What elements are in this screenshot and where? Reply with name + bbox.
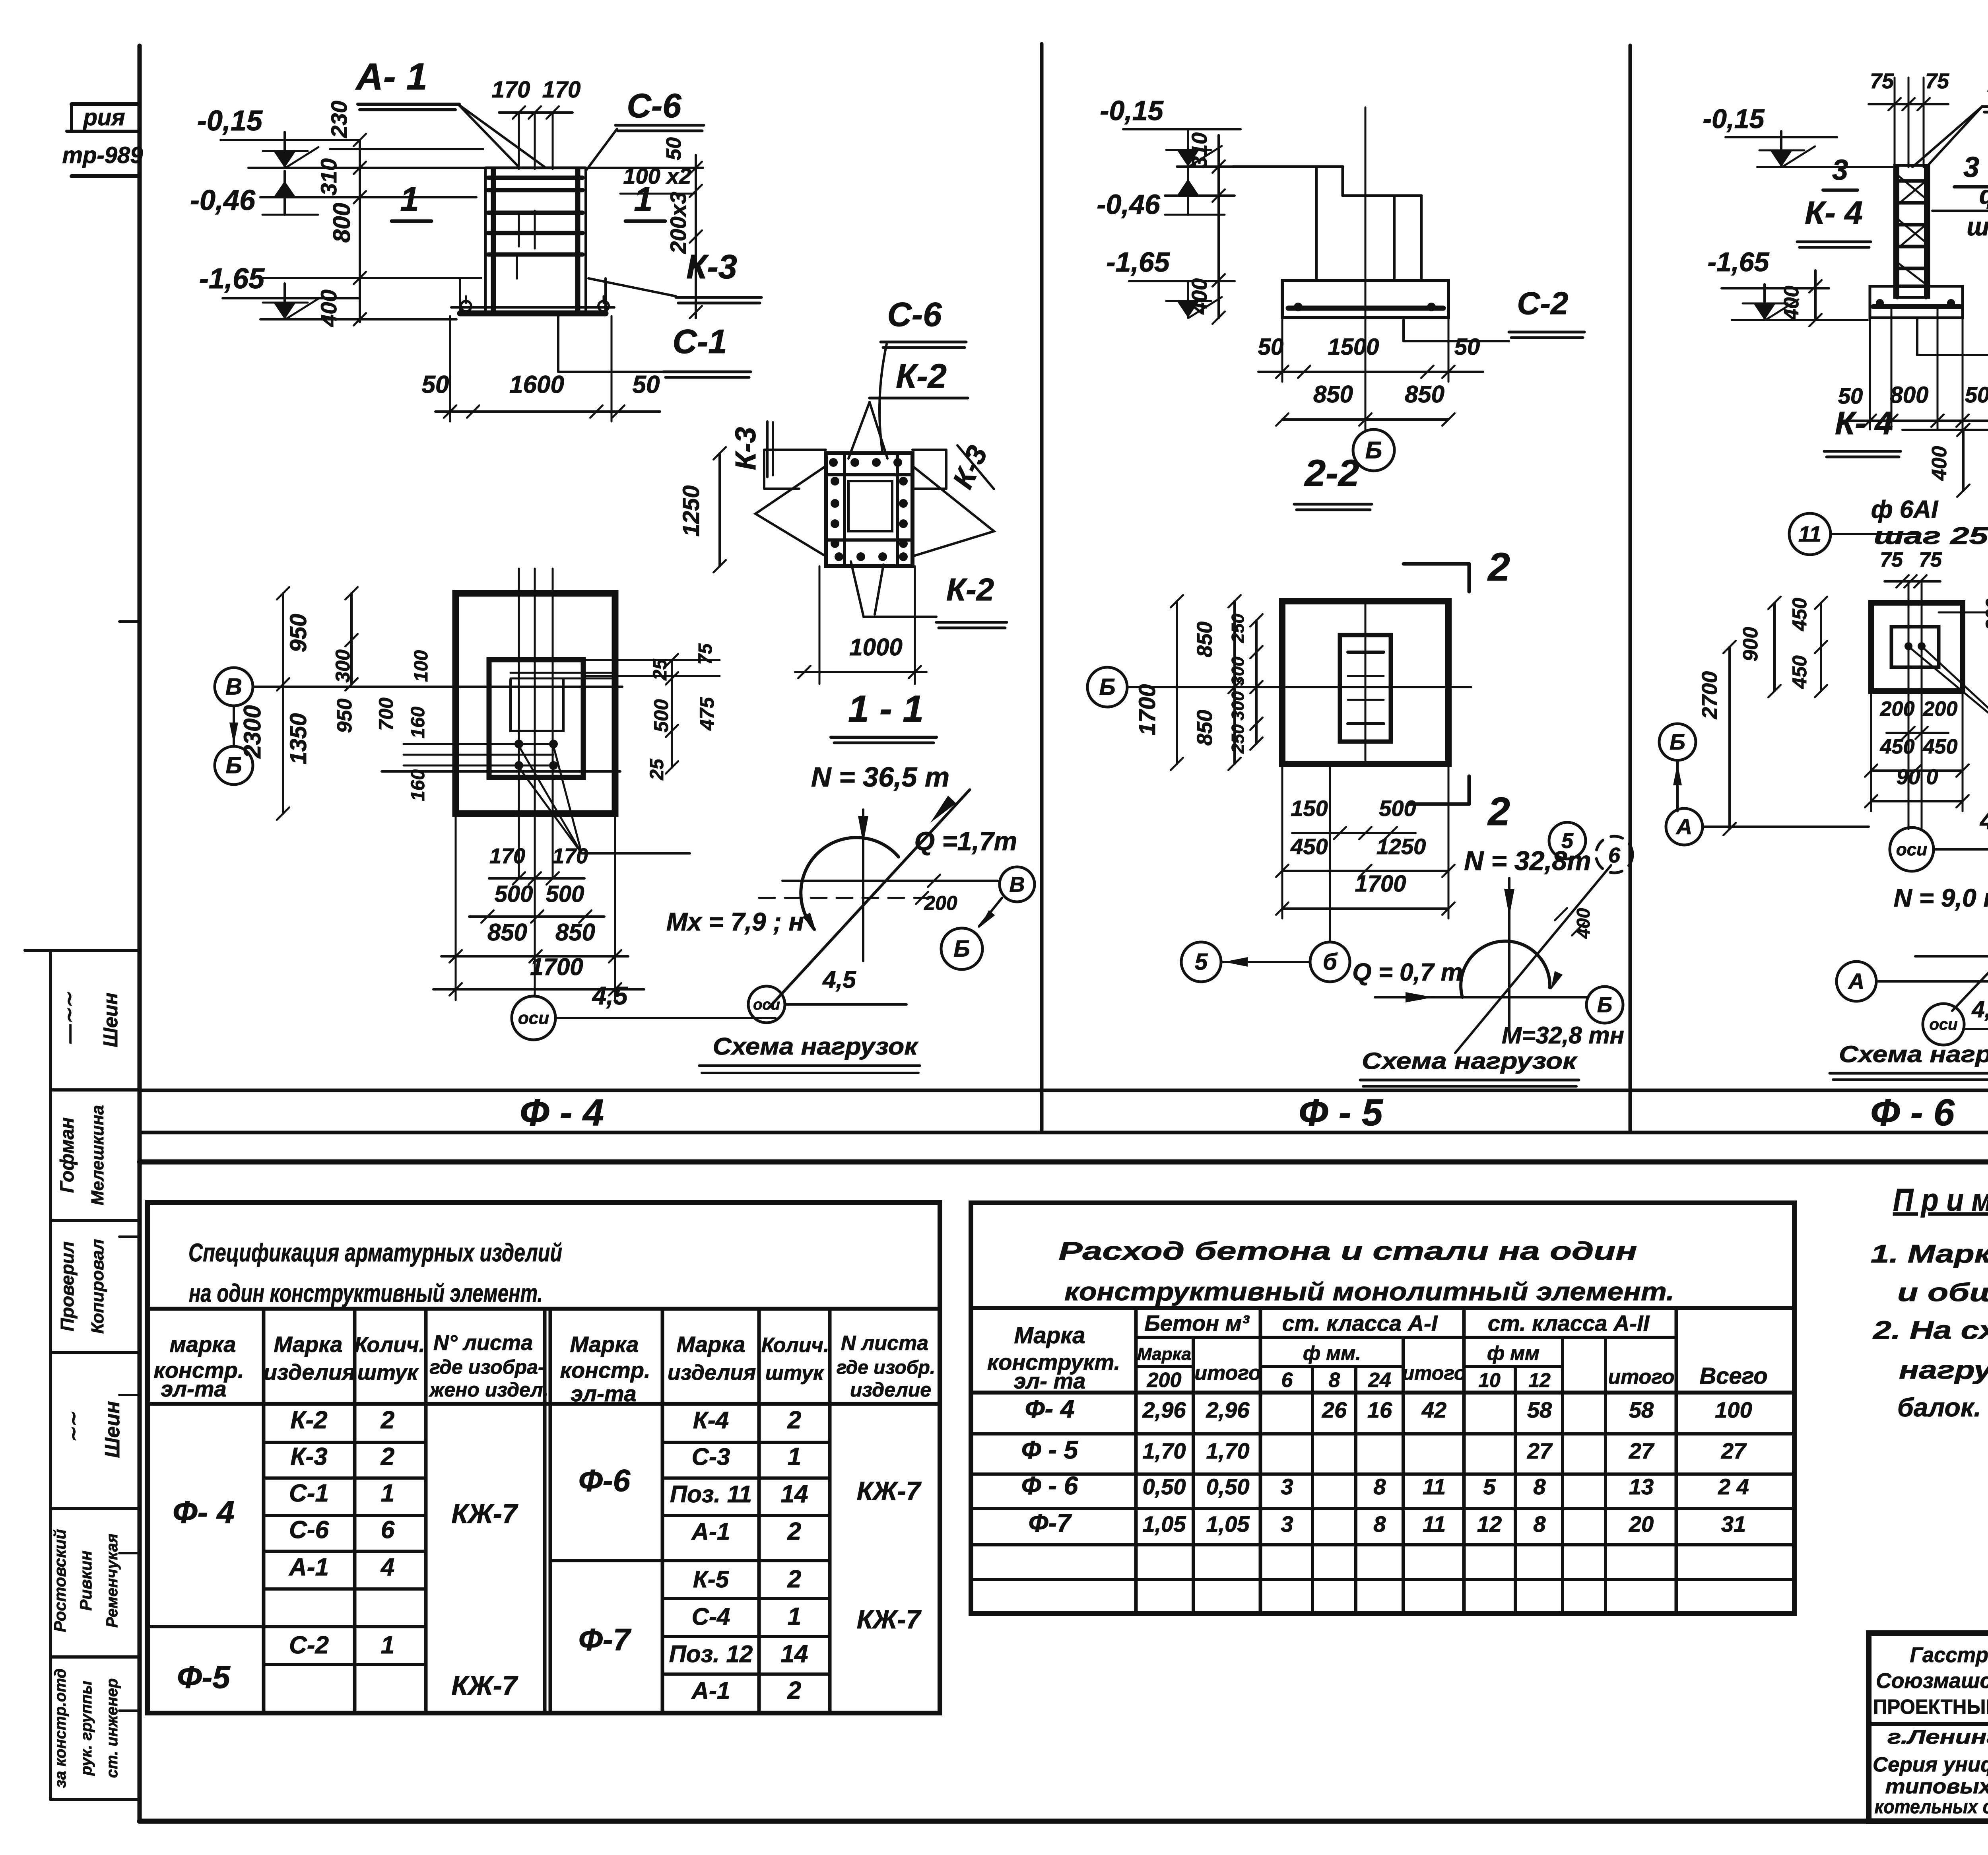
- svg-text:К-2: К-2: [290, 1406, 327, 1434]
- svg-text:1700: 1700: [1134, 684, 1160, 735]
- Ф-5 elevation: Б axis circle: [1353, 429, 1394, 471]
- svg-text:400: 400: [1573, 908, 1594, 939]
- svg-text:0,50: 0,50: [1143, 1474, 1186, 1499]
- svg-text:-0,46: -0,46: [190, 185, 256, 216]
- Ф-4 elevation: anchor bolt lines: [518, 113, 520, 169]
- svg-text:ПРОЕКТНЫЙ ИНСТИТУТ N1: ПРОЕКТНЫЙ ИНСТИТУТ N1: [1873, 1695, 1988, 1719]
- Ф-6 middle: dim 400 vertical: [1962, 430, 1965, 491]
- Ф-6 load scheme: А circle: [1837, 961, 1876, 1001]
- Ф-4 plan: dot row extension lines: [404, 743, 553, 745]
- svg-text:-1,65: -1,65: [199, 263, 265, 295]
- svg-text:3: 3: [1281, 1511, 1293, 1536]
- svg-text:500: 500: [495, 881, 533, 907]
- svg-text:Всего: Всего: [1699, 1363, 1767, 1389]
- svg-text:В: В: [225, 674, 242, 700]
- svg-text:∼∼: ∼∼: [63, 1412, 83, 1443]
- svg-text:С-1: С-1: [289, 1480, 329, 1507]
- svg-text:эл- та: эл- та: [1014, 1368, 1086, 1393]
- svg-text:450: 450: [1788, 598, 1811, 631]
- svg-text:констр.: констр.: [560, 1358, 650, 1383]
- svg-text:2-2: 2-2: [1304, 452, 1359, 494]
- svg-text:8: 8: [1533, 1511, 1546, 1536]
- svg-text:за констр.отд: за констр.отд: [52, 1669, 69, 1788]
- svg-text:-0,15: -0,15: [1100, 95, 1164, 126]
- left stamp column frame: [49, 950, 52, 1799]
- svg-text:К-3: К-3: [290, 1443, 327, 1470]
- svg-text:Гасстрой СССР: Гасстрой СССР: [1910, 1643, 1988, 1667]
- svg-text:200: 200: [1880, 697, 1915, 721]
- svg-text:200: 200: [924, 892, 957, 914]
- svg-text:г.Ленинград 1970 г.: г.Ленинград 1970 г.: [1887, 1726, 1988, 1748]
- svg-text:Ф - 6: Ф - 6: [1870, 1092, 1955, 1134]
- svg-text:13: 13: [1629, 1474, 1654, 1499]
- svg-text:1,05: 1,05: [1206, 1511, 1250, 1536]
- Ф-4 load scheme: moment arc: [801, 837, 899, 929]
- svg-text:Колич.: Колич.: [761, 1334, 829, 1357]
- svg-text:А: А: [1675, 814, 1692, 839]
- svg-text:1: 1: [788, 1603, 801, 1630]
- svg-text:4,5: 4,5: [822, 966, 856, 993]
- Ф-5 load scheme: moment arc: [1461, 941, 1550, 997]
- svg-text:Б: Б: [953, 936, 970, 962]
- svg-text:1600: 1600: [509, 371, 564, 398]
- svg-text:шаг 250: шаг 250: [1967, 212, 1988, 241]
- svg-text:Мх = 7,9 ; н: Мх = 7,9 ; н: [666, 907, 804, 936]
- svg-text:170: 170: [492, 77, 530, 103]
- svg-text:Q = 0,7 т: Q = 0,7 т: [1352, 959, 1462, 986]
- svg-text:N° листа: N° листа: [433, 1331, 533, 1355]
- svg-text:200: 200: [1147, 1369, 1182, 1392]
- svg-text:-1,65: -1,65: [1106, 247, 1170, 278]
- svg-text:450: 450: [1880, 735, 1915, 758]
- svg-text:К-2: К-2: [896, 357, 947, 395]
- Ф-6 plan: inner column: [1891, 627, 1939, 667]
- svg-text:230: 230: [326, 101, 351, 138]
- svg-text:Схема нагрузок: Схема нагрузок: [713, 1033, 919, 1060]
- svg-text:А-1: А-1: [288, 1554, 329, 1581]
- svg-text:Ф- 4: Ф- 4: [173, 1494, 235, 1530]
- svg-text:К- 4: К- 4: [1805, 195, 1863, 231]
- svg-text:Ф - 5: Ф - 5: [1021, 1435, 1079, 1464]
- svg-text:160: 160: [408, 769, 429, 801]
- svg-text:ст. инженер: ст. инженер: [103, 1678, 121, 1778]
- svg-text:А- 1: А- 1: [355, 56, 427, 98]
- svg-text:450: 450: [1290, 834, 1328, 859]
- svg-text:2: 2: [787, 1677, 801, 1704]
- svg-text:эл-та: эл-та: [161, 1376, 226, 1401]
- svg-text:ф 6АI: ф 6АI: [1871, 496, 1939, 523]
- svg-text:31: 31: [1721, 1511, 1746, 1536]
- svg-text:11: 11: [1423, 1511, 1446, 1536]
- svg-text:Поз. 11: Поз. 11: [670, 1481, 752, 1507]
- svg-text:Ф - 4: Ф - 4: [520, 1092, 604, 1134]
- svg-text:75: 75: [1870, 69, 1894, 93]
- svg-text:С-6: С-6: [289, 1516, 329, 1544]
- svg-text:1700: 1700: [1355, 871, 1406, 897]
- svg-text:1,70: 1,70: [1143, 1438, 1186, 1463]
- svg-text:С-6: С-6: [627, 87, 682, 125]
- svg-text:Проверил: Проверил: [57, 1241, 78, 1331]
- svg-text:4,5,6: 4,5,6: [1972, 996, 1988, 1022]
- svg-text:50: 50: [1965, 382, 1988, 407]
- svg-text:310: 310: [1188, 132, 1211, 168]
- svg-text:Шеин: Шеин: [99, 993, 122, 1047]
- svg-text:1,70: 1,70: [1206, 1438, 1250, 1463]
- Ф-5 load scheme: diagonal: [1455, 865, 1611, 1053]
- svg-text:4,5, 6: 4,5, 6: [1979, 806, 1988, 835]
- svg-text:950: 950: [333, 699, 356, 733]
- svg-text:1500: 1500: [1328, 334, 1379, 360]
- Ф-6 load scheme: оси circle: [1923, 1004, 1964, 1045]
- Ф-5 plan: axis Б circle and line: [1087, 667, 1127, 707]
- Ф-4 plan: leader lines to А-1: [519, 746, 582, 853]
- svg-text:90 0: 90 0: [1896, 765, 1938, 789]
- svg-text:ф мм.: ф мм.: [1303, 1342, 1361, 1364]
- Ф-4 section 1-1: square with rebar: [826, 453, 912, 566]
- svg-text:100: 100: [411, 650, 432, 682]
- Ф-6 plan: оси circle: [1890, 827, 1934, 871]
- Ф-6 plan: right dims 200: [1939, 612, 1988, 614]
- svg-text:КЖ-7: КЖ-7: [857, 1604, 922, 1634]
- svg-text:42: 42: [1421, 1397, 1446, 1422]
- svg-text:850: 850: [1193, 710, 1217, 746]
- svg-text:Ф-7: Ф-7: [1029, 1509, 1072, 1537]
- Ф-4 load scheme: оси circle: [748, 986, 785, 1023]
- Ф-4 load scheme: N force line: [862, 810, 864, 961]
- Ф-4 elevation: right dim chain: [695, 155, 697, 318]
- svg-text:170: 170: [552, 844, 588, 868]
- svg-text:С-2: С-2: [289, 1632, 329, 1659]
- svg-text:Марка: Марка: [1137, 1344, 1191, 1364]
- Ф-5 load scheme: horizontal axis with Q arrow: [1375, 996, 1588, 998]
- svg-text:400: 400: [1188, 278, 1211, 315]
- Ф-5 plan: section cut 2 top: [1404, 562, 1469, 566]
- label row bottom line: [140, 1131, 1988, 1134]
- Ф-6 load scheme: horizontal axes: [1915, 955, 1988, 958]
- svg-text:200: 200: [1923, 697, 1958, 721]
- svg-text:5: 5: [1483, 1474, 1496, 1499]
- svg-text:8: 8: [1329, 1369, 1340, 1392]
- Ф-5 plan: outer contour: [1282, 601, 1448, 764]
- svg-text:Ривкин: Ривкин: [76, 1550, 95, 1610]
- Ф-4 plan: outer contour: [456, 593, 615, 814]
- svg-text:3: 3: [1281, 1474, 1293, 1499]
- svg-text:2: 2: [381, 1443, 394, 1470]
- Ф-4 elevation: aux level line: [330, 148, 483, 150]
- svg-text:500: 500: [1379, 796, 1416, 821]
- svg-text:К-5: К-5: [693, 1566, 730, 1593]
- Ф-4 elevation: column with stirrups: [485, 167, 586, 169]
- svg-text:оси: оси: [518, 1008, 549, 1028]
- svg-text:Схема нагрузок: Схема нагрузок: [1839, 1041, 1988, 1067]
- svg-text:ст. класса А-II: ст. класса А-II: [1488, 1311, 1650, 1336]
- svg-text:12: 12: [1528, 1369, 1551, 1391]
- svg-text:Ф - 5: Ф - 5: [1299, 1092, 1383, 1134]
- Ф-5 elevation: footing: [1282, 280, 1448, 318]
- svg-text:Схема нагрузок: Схема нагрузок: [1362, 1048, 1578, 1074]
- svg-text:5: 5: [1195, 949, 1208, 975]
- svg-text:250: 250: [1228, 724, 1248, 754]
- svg-text:170: 170: [489, 844, 525, 868]
- Ф-4 section 1-1: wing lines: [755, 466, 826, 556]
- svg-text:штук: штук: [357, 1361, 419, 1385]
- svg-text:К-4: К-4: [693, 1407, 729, 1433]
- svg-text:Марка: Марка: [570, 1332, 639, 1357]
- Ф-4 plan: оси circle: [512, 996, 555, 1040]
- svg-text:Поз. 12: Поз. 12: [669, 1641, 753, 1667]
- svg-text:на один конструктивный элемент: на один конструктивный элемент.: [189, 1279, 543, 1307]
- svg-text:котельных с котлами ДКВР: котельных с котлами ДКВР: [1875, 1797, 1988, 1818]
- Ф-4 plan: axis Б circle: [215, 746, 253, 785]
- svg-text:С-1: С-1: [673, 323, 727, 361]
- table 1 Спецификация арматурных изделий: [148, 1202, 940, 1713]
- svg-text:300: 300: [1228, 657, 1248, 686]
- svg-text:Б: Б: [1670, 729, 1685, 754]
- Ф-4 elevation: left dim chain: [359, 140, 361, 322]
- svg-text:2,96: 2,96: [1206, 1397, 1250, 1422]
- svg-text:27: 27: [1721, 1438, 1747, 1463]
- svg-text:75: 75: [1919, 548, 1942, 571]
- svg-text:КЖ-7: КЖ-7: [451, 1499, 518, 1529]
- svg-text:50: 50: [422, 371, 449, 398]
- section separator line: [140, 1160, 1988, 1165]
- svg-text:рук. группы: рук. группы: [78, 1681, 95, 1776]
- svg-text:изделие: изделие: [850, 1379, 931, 1401]
- Ф-4 section 1-1: left dim 1250: [718, 453, 721, 566]
- svg-text:Расход бетона и стали на о: Расход бетона и стали на один: [1059, 1237, 1637, 1265]
- svg-text:8: 8: [1533, 1474, 1546, 1499]
- svg-text:конструктивный монолитный эл: конструктивный монолитный элемент.: [1064, 1277, 1674, 1306]
- svg-text:14: 14: [781, 1480, 808, 1508]
- svg-text:Гофман: Гофман: [57, 1117, 78, 1193]
- svg-text:оси: оси: [1929, 1016, 1957, 1033]
- svg-text:В: В: [1010, 872, 1025, 896]
- svg-text:250: 250: [1228, 614, 1248, 643]
- svg-text:Ф-6: Ф-6: [579, 1463, 631, 1498]
- svg-text:Союзмашстройпроект: Союзмашстройпроект: [1876, 1669, 1988, 1693]
- svg-text:8: 8: [1373, 1474, 1386, 1499]
- svg-text:итого: итого: [1402, 1362, 1466, 1384]
- svg-text:2: 2: [1487, 789, 1510, 834]
- svg-text:58: 58: [1527, 1397, 1552, 1422]
- svg-text:16: 16: [1367, 1397, 1392, 1422]
- svg-text:Копировал: Копировал: [88, 1239, 107, 1334]
- svg-text:С-3: С-3: [692, 1443, 730, 1470]
- svg-text:Шеин: Шеин: [101, 1401, 124, 1458]
- Ф-6 plan: axis circles Б А: [1659, 724, 1696, 760]
- title block left column: [1869, 1722, 1988, 1726]
- svg-text:2: 2: [787, 1406, 801, 1434]
- Ф-4 plan: right dims 25 75 500 475: [584, 659, 720, 661]
- svg-text:К-3: К-3: [730, 427, 762, 470]
- svg-text:С-6: С-6: [887, 296, 942, 334]
- svg-text:170: 170: [542, 77, 581, 103]
- svg-text:1350: 1350: [285, 713, 311, 764]
- svg-text:2: 2: [787, 1566, 801, 1593]
- svg-text:900: 900: [1739, 627, 1762, 662]
- sheet left border: [138, 46, 142, 1821]
- svg-text:N = 9,0 т: N = 9,0 т: [1894, 884, 1988, 912]
- svg-text:изделия: изделия: [668, 1361, 756, 1385]
- svg-text:800: 800: [1890, 382, 1929, 408]
- svg-text:27: 27: [1527, 1438, 1553, 1463]
- Ф-4 plan: inner column contour: [489, 660, 583, 777]
- svg-text:-0,15: -0,15: [197, 105, 263, 137]
- svg-text:310: 310: [316, 158, 341, 195]
- svg-text:К-2: К-2: [946, 572, 994, 607]
- left margin fold marks: [119, 620, 140, 623]
- svg-text:8: 8: [1373, 1511, 1386, 1536]
- svg-text:1 - 1: 1 - 1: [848, 688, 924, 730]
- svg-text:ф мм: ф мм: [1487, 1342, 1540, 1364]
- svg-text:2: 2: [381, 1406, 394, 1434]
- Ф-4 plan: bolt axis lines: [518, 569, 520, 878]
- svg-text:1: 1: [381, 1632, 394, 1659]
- svg-text:850: 850: [555, 919, 595, 946]
- svg-text:N = 36,5 т: N = 36,5 т: [811, 761, 949, 793]
- svg-text:С-2: С-2: [1517, 286, 1569, 321]
- svg-text:450: 450: [1788, 655, 1811, 689]
- svg-text:1: 1: [634, 181, 652, 218]
- svg-text:Ф- 4: Ф- 4: [1025, 1395, 1075, 1423]
- svg-text:Б: Б: [1099, 674, 1115, 700]
- svg-text:К- 4: К- 4: [1835, 405, 1893, 441]
- svg-text:2700: 2700: [1698, 671, 1722, 719]
- svg-text:ф 6АI: ф 6АI: [1979, 181, 1988, 209]
- svg-text:оси: оси: [753, 996, 780, 1013]
- Ф-4 elevation: level lines across: [248, 167, 485, 169]
- Ф-5 load scheme: axis circles 5 6: [1549, 822, 1586, 859]
- Ф-5 plan: inner column: [1340, 635, 1391, 742]
- svg-text:6: 6: [381, 1516, 395, 1544]
- svg-text:N листа: N листа: [841, 1332, 928, 1355]
- svg-text:25: 25: [650, 658, 671, 681]
- panel divider 1: [1040, 44, 1044, 1132]
- svg-text:КЖ-7: КЖ-7: [857, 1476, 922, 1505]
- svg-text:450: 450: [1923, 735, 1958, 758]
- svg-text:850: 850: [487, 919, 527, 946]
- svg-text:200: 200: [1982, 598, 1988, 631]
- Ф-5 plan: axis circles 5 and 6: [1181, 942, 1221, 982]
- svg-text:где изобра-: где изобра-: [429, 1356, 544, 1378]
- Ф-4 plan: rebar dots: [514, 740, 523, 748]
- panel divider 2: [1629, 45, 1632, 1132]
- Ф-5 plan: section cut 2 bottom: [1468, 776, 1471, 804]
- svg-text:400: 400: [316, 289, 341, 327]
- svg-text:50: 50: [633, 371, 660, 398]
- svg-text:балок.: балок.: [1897, 1393, 1981, 1422]
- svg-text:ст. класса А-I: ст. класса А-I: [1282, 1311, 1438, 1336]
- svg-text:400: 400: [1780, 286, 1803, 321]
- svg-text:1000: 1000: [849, 634, 902, 660]
- svg-text:50: 50: [1838, 383, 1863, 408]
- svg-text:Q =1,7т: Q =1,7т: [914, 826, 1017, 856]
- svg-text:Ростовский: Ростовский: [50, 1529, 69, 1632]
- svg-text:М=32,8 тн: М=32,8 тн: [1502, 1022, 1624, 1049]
- svg-text:75: 75: [1880, 548, 1903, 571]
- svg-text:1: 1: [788, 1443, 801, 1470]
- svg-text:-0,15: -0,15: [1703, 104, 1765, 134]
- top-left stamp box: [72, 102, 140, 106]
- svg-text:Б: Б: [1597, 993, 1612, 1017]
- Ф-5 elevation: stepped column profile: [1233, 165, 1343, 168]
- svg-text:150: 150: [1291, 796, 1328, 821]
- svg-text:Мелешкина: Мелешкина: [88, 1105, 107, 1205]
- sheet bottom border: [140, 1819, 1988, 1824]
- svg-text:50: 50: [1258, 334, 1284, 360]
- svg-text:Ф-5: Ф-5: [177, 1659, 231, 1695]
- svg-text:Ф - 6: Ф - 6: [1021, 1471, 1078, 1500]
- svg-text:шаг 250: шаг 250: [1874, 523, 1988, 549]
- svg-text:500: 500: [650, 699, 672, 732]
- svg-text:2: 2: [787, 1518, 801, 1545]
- svg-text:6: 6: [1281, 1369, 1293, 1392]
- svg-text:где изобр.: где изобр.: [837, 1357, 935, 1378]
- label row top line: [140, 1089, 1988, 1092]
- svg-text:Марка: Марка: [274, 1332, 343, 1357]
- svg-text:Марка: Марка: [677, 1332, 745, 1357]
- svg-text:100 х2: 100 х2: [623, 163, 691, 188]
- svg-text:жено издел.: жено издел.: [429, 1379, 549, 1401]
- svg-text:штук: штук: [765, 1362, 825, 1385]
- svg-text:КЖ-7: КЖ-7: [451, 1670, 518, 1701]
- svg-text:Серия унифицированных: Серия унифицированных: [1873, 1753, 1988, 1776]
- svg-text:б: б: [1323, 949, 1338, 975]
- svg-text:типовых проектов: типовых проектов: [1885, 1775, 1988, 1798]
- svg-text:26: 26: [1322, 1397, 1347, 1422]
- svg-text:4: 4: [380, 1554, 394, 1581]
- svg-text:200х3: 200х3: [666, 192, 691, 254]
- Ф-4 section 1-1: side beam outlines: [764, 449, 826, 451]
- Ф-6 plan: left dims: [1820, 603, 1822, 691]
- svg-text:А-1: А-1: [691, 1518, 730, 1545]
- svg-text:2,96: 2,96: [1142, 1397, 1186, 1422]
- svg-text:850: 850: [1313, 381, 1353, 408]
- svg-text:марка: марка: [170, 1332, 236, 1357]
- svg-text:58: 58: [1629, 1397, 1654, 1422]
- svg-text:6: 6: [1608, 843, 1621, 867]
- Ф-4 plan: inner rebar outline: [511, 680, 563, 731]
- svg-text:Ременчукая: Ременчукая: [103, 1534, 121, 1628]
- svg-text:Марка: Марка: [1014, 1323, 1085, 1348]
- svg-text:12: 12: [1477, 1511, 1502, 1536]
- Ф-6 elevation: column with cross ties: [1895, 165, 1929, 297]
- svg-text:итого: итого: [1194, 1362, 1261, 1385]
- svg-text:400: 400: [1928, 446, 1951, 481]
- svg-text:700: 700: [375, 697, 397, 731]
- svg-text:эл-та: эл-та: [571, 1381, 636, 1406]
- svg-text:10: 10: [1478, 1369, 1501, 1391]
- svg-text:Колич.: Колич.: [354, 1333, 425, 1357]
- svg-text:160: 160: [408, 707, 429, 738]
- svg-text:100: 100: [1715, 1397, 1752, 1422]
- svg-text:300: 300: [1228, 691, 1248, 721]
- svg-text:800: 800: [328, 203, 355, 243]
- Ф-4 elevation: footing with anchors: [460, 311, 606, 317]
- svg-text:1250: 1250: [678, 485, 704, 536]
- Ф-4 load scheme: horizontal axis: [782, 880, 998, 882]
- Ф-6 elevation: footing: [1870, 286, 1963, 318]
- svg-text:А-1: А-1: [691, 1677, 730, 1704]
- Ф-6 plan: outer contour: [1871, 603, 1963, 691]
- Ф-5 plan: left dims: [1176, 601, 1178, 764]
- svg-text:2300: 2300: [239, 705, 266, 758]
- svg-text:850: 850: [1193, 622, 1217, 657]
- svg-text:50: 50: [662, 137, 685, 160]
- svg-text:11: 11: [1798, 521, 1821, 546]
- svg-text:А: А: [1848, 969, 1864, 994]
- svg-text:оси: оси: [1896, 840, 1927, 859]
